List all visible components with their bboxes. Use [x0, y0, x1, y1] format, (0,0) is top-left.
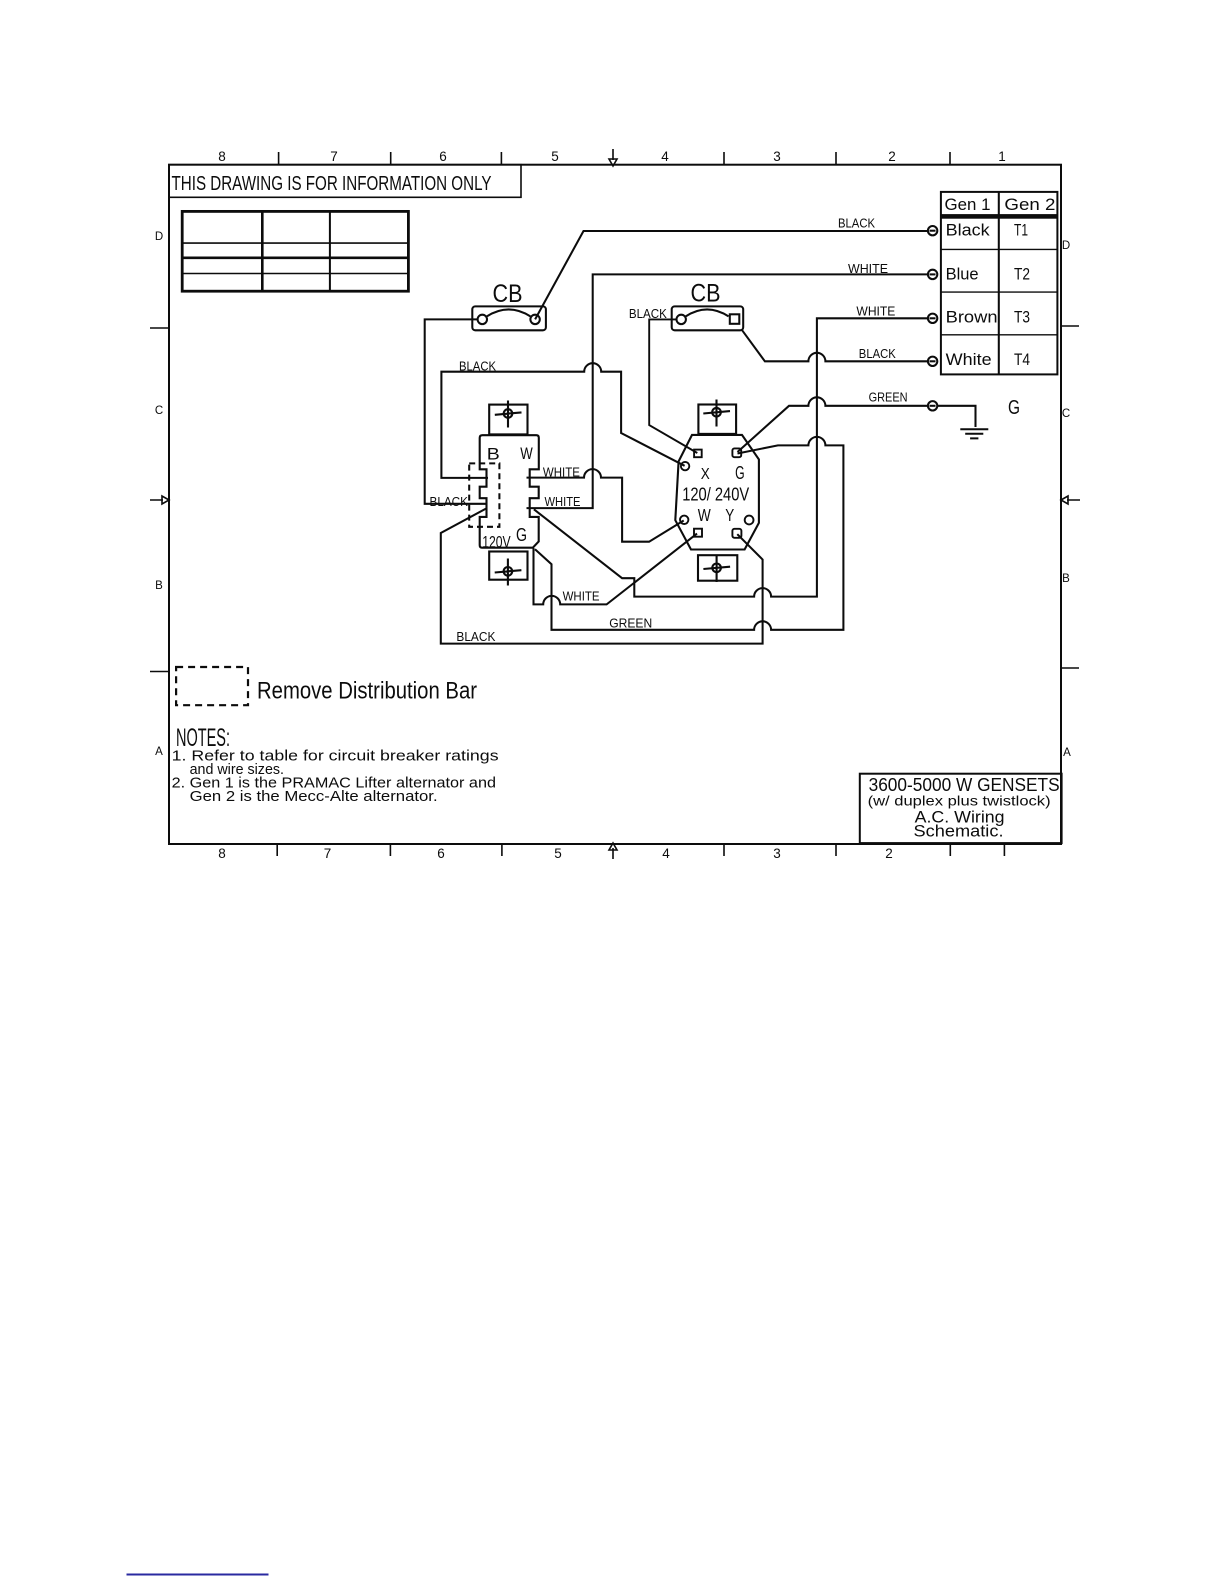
bottom screw — [504, 567, 513, 576]
wire labels near terminals — [838, 217, 908, 405]
bottom ruler numbers — [218, 846, 893, 861]
svg-text:(w/ duplex plus twistlock): (w/ duplex plus twistlock) — [868, 793, 1051, 809]
svg-text:B: B — [1062, 573, 1070, 585]
title block — [860, 774, 1062, 843]
top mounting tab — [489, 405, 527, 435]
svg-text:7: 7 — [330, 149, 338, 164]
wire G pin to GREEN terminal — [738, 397, 928, 452]
svg-text:Black: Black — [946, 222, 991, 240]
blue line bottom left — [127, 1574, 269, 1576]
svg-text:G: G — [1008, 397, 1020, 419]
svg-text:Gen 2 is the Mecc-Alte alterna: Gen 2 is the Mecc-Alte alternator. — [190, 788, 438, 805]
svg-text:T4: T4 — [1014, 351, 1030, 369]
svg-text:B: B — [155, 580, 163, 592]
svg-text:Gen 2: Gen 2 — [1004, 196, 1055, 214]
svg-text:T3: T3 — [1014, 309, 1030, 327]
wire upper W notch to W round pin (WHITE) — [527, 469, 684, 542]
border row letters — [155, 231, 1071, 759]
svg-text:BLACK: BLACK — [459, 360, 497, 374]
svg-text:W: W — [698, 505, 711, 525]
bottom mounting tab — [489, 552, 527, 580]
svg-text:CB: CB — [691, 280, 721, 308]
svg-text:BLACK: BLACK — [430, 495, 469, 509]
svg-text:Gen 1: Gen 1 — [945, 196, 991, 214]
svg-text:5: 5 — [551, 149, 559, 164]
terminal circles column — [928, 226, 937, 410]
right receptacle pins — [680, 448, 753, 537]
schematic wire labels — [430, 360, 653, 645]
svg-text:120/ 240V: 120/ 240V — [682, 485, 749, 505]
svg-text:T2: T2 — [1014, 266, 1030, 284]
svg-text:WHITE: WHITE — [543, 466, 580, 480]
svg-text:T1: T1 — [1014, 222, 1028, 240]
svg-text:Brown: Brown — [946, 309, 998, 327]
svg-text:C: C — [1062, 408, 1070, 420]
body outline — [480, 435, 539, 548]
svg-text:8: 8 — [218, 149, 226, 164]
empty ratings table — [182, 211, 408, 291]
svg-text:2: 2 — [885, 846, 893, 861]
svg-text:A: A — [155, 746, 163, 758]
svg-text:W: W — [520, 444, 533, 463]
svg-text:G: G — [516, 524, 527, 545]
info-only box — [169, 165, 521, 198]
svg-text:7: 7 — [324, 846, 332, 861]
top screw — [504, 409, 513, 418]
svg-text:WHITE: WHITE — [545, 495, 581, 509]
ground wire and symbol — [937, 406, 975, 427]
CB1 circuit breaker — [472, 306, 546, 330]
svg-text:THIS DRAWING IS FOR INFORMATIO: THIS DRAWING IS FOR INFORMATION ONLY — [172, 173, 492, 195]
wire CB2 to X square pin — [649, 319, 697, 453]
svg-text:Blue: Blue — [946, 266, 979, 284]
wire lower notch to T3 via bottom run (WHITE) — [534, 318, 928, 596]
top center arrow — [609, 149, 617, 166]
Gen1/Gen2 table — [941, 192, 1058, 375]
svg-text:2: 2 — [888, 149, 896, 164]
svg-text:White: White — [946, 351, 992, 369]
svg-text:6: 6 — [437, 846, 445, 861]
CB2 circuit breaker — [672, 306, 744, 330]
top mounting tab — [698, 405, 736, 434]
svg-text:D: D — [155, 231, 163, 243]
svg-text:3: 3 — [773, 149, 781, 164]
svg-text:WHITE: WHITE — [856, 305, 895, 319]
svg-text:CB: CB — [493, 280, 523, 308]
svg-text:BLACK: BLACK — [456, 630, 496, 644]
svg-text:Remove Distribution Bar: Remove Distribution Bar — [257, 677, 477, 704]
svg-text:4: 4 — [662, 846, 670, 861]
svg-text:120V: 120V — [482, 534, 511, 552]
svg-text:C: C — [155, 405, 163, 417]
left receptacle (duplex 120V) — [480, 401, 539, 586]
border ticks and centerline arrows — [150, 326, 1079, 672]
svg-text:G: G — [735, 462, 745, 483]
wire CB1 to T1 (BLACK) — [535, 231, 928, 319]
svg-text:Y: Y — [725, 505, 734, 525]
bottom center arrow — [609, 843, 617, 859]
svg-text:B: B — [487, 444, 500, 463]
legend dashed box — [176, 667, 248, 705]
svg-text:6: 6 — [439, 149, 447, 164]
top ruler ticks — [279, 152, 950, 165]
wire lower-left notch to Y square pin (BLACK bottom) — [441, 509, 763, 644]
body outline — [675, 435, 759, 550]
wire T2 to left receptacle W notch (WHITE) — [527, 274, 928, 508]
svg-text:D: D — [1062, 240, 1070, 252]
svg-text:1: 1 — [998, 149, 1006, 164]
svg-text:X: X — [701, 466, 710, 483]
svg-text:5: 5 — [554, 846, 562, 861]
dashed distribution-bar box on receptacle — [469, 463, 499, 526]
bottom mounting tab — [698, 555, 737, 581]
svg-text:A: A — [1063, 747, 1071, 759]
svg-text:Schematic.: Schematic. — [914, 822, 1004, 841]
svg-text:BLACK: BLACK — [838, 217, 876, 231]
svg-text:BLACK: BLACK — [859, 347, 897, 361]
svg-text:4: 4 — [661, 149, 669, 164]
wire upper-left notch to X pin (BLACK top) — [441, 363, 684, 478]
svg-text:GREEN: GREEN — [869, 390, 908, 404]
svg-text:GREEN: GREEN — [609, 617, 652, 631]
wire G corner to W square pin (WHITE) — [534, 534, 698, 605]
wire G pin to left receptacle G corner (GREEN bottom) — [535, 437, 843, 630]
wire CB1 to lower-left notch (BLACK) — [425, 319, 487, 503]
svg-text:WHITE: WHITE — [563, 590, 600, 604]
top ruler numbers — [218, 149, 1006, 164]
svg-text:3: 3 — [773, 846, 781, 861]
wire CB2 to T4 (BLACK) — [742, 330, 928, 362]
svg-text:8: 8 — [218, 846, 226, 861]
border frame — [169, 165, 1061, 844]
right receptacle (twistlock 120/240V) — [675, 400, 759, 583]
